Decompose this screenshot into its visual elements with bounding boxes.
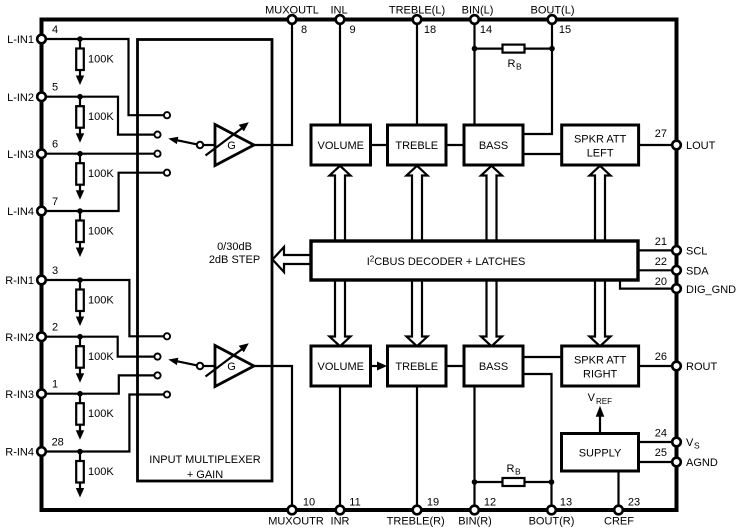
resistor 100K (L-IN2) bbox=[76, 97, 115, 143]
junction BOUT(R) bbox=[549, 479, 555, 485]
svg-text:12: 12 bbox=[484, 497, 496, 509]
svg-text:R-IN1: R-IN1 bbox=[5, 275, 34, 287]
SPKR ATT RIGHT box bbox=[562, 346, 639, 386]
control arrow to BASS L bbox=[481, 166, 502, 243]
pin 22 SDA bbox=[655, 256, 710, 278]
svg-text:B: B bbox=[516, 62, 522, 72]
pin 8 MUXOUTL bbox=[265, 5, 319, 37]
svg-text:ROUT: ROUT bbox=[686, 361, 717, 373]
pin 1 R-IN3 bbox=[5, 379, 58, 401]
svg-text:LOUT: LOUT bbox=[686, 140, 716, 152]
wire VOLUME-R to TREBLE-R bbox=[371, 362, 388, 371]
svg-text:22: 22 bbox=[655, 256, 667, 268]
svg-text:V: V bbox=[588, 392, 596, 404]
wire R-IN1 to multiplexer contact bbox=[42, 280, 168, 336]
svg-text:R: R bbox=[508, 58, 516, 70]
wire INL to VOLUME-L bbox=[339, 20, 341, 126]
svg-text:R-IN4: R-IN4 bbox=[5, 447, 34, 459]
BASS-L box bbox=[464, 125, 523, 165]
svg-text:11: 11 bbox=[349, 497, 360, 509]
resistor 100K (R-IN1) bbox=[76, 280, 115, 326]
pin 18 TREBLE(L) bbox=[389, 5, 445, 37]
pin 5 L-IN2 bbox=[7, 82, 58, 104]
wire DIG_GND bbox=[620, 280, 677, 289]
svg-text:100K: 100K bbox=[88, 168, 114, 180]
wire BASS-R to SPKR ATT RIGHT bbox=[523, 356, 562, 358]
svg-text:15: 15 bbox=[559, 24, 571, 36]
svg-text:24: 24 bbox=[655, 427, 667, 439]
svg-text:TREBLE: TREBLE bbox=[395, 140, 438, 152]
wire CREF to SUPPLY bbox=[617, 471, 619, 510]
I2CBUS DECODER + LATCHES box bbox=[311, 241, 638, 280]
svg-text:100K: 100K bbox=[88, 408, 114, 420]
svg-text:BIN(R): BIN(R) bbox=[458, 516, 492, 528]
svg-text:INR: INR bbox=[331, 516, 350, 528]
svg-text:9: 9 bbox=[349, 24, 355, 36]
svg-text:0/30dB: 0/30dB bbox=[217, 241, 252, 253]
IC outline bbox=[42, 20, 677, 511]
svg-text:BIN(L): BIN(L) bbox=[462, 5, 494, 17]
svg-text:100K: 100K bbox=[88, 294, 114, 306]
svg-text:14: 14 bbox=[480, 24, 492, 36]
pin 12 BIN(R) bbox=[458, 497, 496, 528]
junction R-IN1 bbox=[77, 277, 83, 283]
resistor RB (right) bbox=[503, 463, 525, 486]
mux contact L4 bbox=[164, 170, 170, 176]
junction BOUT(L) bbox=[549, 46, 555, 52]
pin 9 INL bbox=[330, 5, 355, 37]
wire R-IN2 to multiplexer contact bbox=[42, 337, 158, 357]
svg-text:TREBLE(R): TREBLE(R) bbox=[387, 516, 445, 528]
mux contact L3 bbox=[154, 151, 160, 157]
svg-text:SDA: SDA bbox=[686, 266, 709, 278]
svg-text:18: 18 bbox=[424, 24, 436, 36]
wiper arrow (right channel) bbox=[168, 358, 215, 370]
wire SDA bbox=[638, 269, 677, 271]
svg-text:25: 25 bbox=[655, 447, 667, 459]
svg-text:G: G bbox=[227, 361, 236, 373]
pin 13 BOUT(R) bbox=[529, 497, 575, 528]
svg-text:+ GAIN: + GAIN bbox=[187, 469, 223, 481]
pin 27 LOUT bbox=[655, 128, 716, 152]
pin 11 INR bbox=[331, 497, 361, 528]
resistor 100K (L-IN3) bbox=[76, 154, 115, 200]
svg-text:6: 6 bbox=[52, 139, 58, 151]
junction R-IN2 bbox=[77, 334, 83, 340]
wire BIN(R) to BASS-R bbox=[473, 386, 475, 510]
svg-text:100K: 100K bbox=[88, 351, 114, 363]
wire SPKR ATT LEFT to LOUT bbox=[639, 144, 677, 146]
svg-text:L-IN3: L-IN3 bbox=[7, 149, 34, 161]
svg-text:DIG_GND: DIG_GND bbox=[686, 284, 736, 296]
junction L-IN4 bbox=[77, 208, 83, 214]
svg-text:I2CBUS DECODER + LATCHES: I2CBUS DECODER + LATCHES bbox=[367, 255, 526, 269]
svg-text:BASS: BASS bbox=[479, 140, 508, 152]
control arrow to TREBLE R bbox=[407, 278, 428, 346]
svg-text:LEFT: LEFT bbox=[587, 147, 614, 159]
wire L-IN3 to multiplexer contact bbox=[42, 153, 158, 155]
svg-text:BOUT(R): BOUT(R) bbox=[529, 516, 575, 528]
SUPPLY box bbox=[562, 434, 639, 472]
svg-text:100K: 100K bbox=[88, 111, 114, 123]
svg-text:L-IN4: L-IN4 bbox=[7, 206, 34, 218]
arrow VREF from SUPPLY bbox=[588, 392, 612, 434]
mux contact R2 bbox=[154, 354, 160, 360]
label INPUT MULTIPLEXER + GAIN bbox=[149, 454, 261, 481]
pin 19 TREBLE(R) bbox=[387, 497, 445, 528]
svg-text:G: G bbox=[227, 140, 236, 152]
svg-text:BASS: BASS bbox=[479, 361, 508, 373]
wire TREBLE(R) to TREBLE-R bbox=[416, 386, 418, 510]
wire VOLUME-L to TREBLE-L bbox=[371, 144, 388, 146]
control arrow to VOLUME R bbox=[330, 278, 351, 346]
wire BIN(L) to BASS-L bbox=[473, 20, 475, 126]
wire INR to VOLUME-R bbox=[339, 386, 341, 510]
junction L-IN1 bbox=[77, 36, 83, 42]
svg-text:SPKR ATT: SPKR ATT bbox=[574, 133, 627, 145]
pin 4 L-IN1 bbox=[7, 24, 58, 46]
svg-text:5: 5 bbox=[52, 82, 58, 94]
TREBLE-R box bbox=[388, 346, 447, 386]
junction BIN(L) bbox=[472, 46, 478, 52]
label 0/30dB 2dB STEP bbox=[209, 241, 260, 266]
wire BOUT(L) to BASS-L bbox=[523, 20, 552, 135]
svg-text:100K: 100K bbox=[88, 53, 114, 65]
svg-text:19: 19 bbox=[427, 497, 439, 509]
svg-text:MUXOUTR: MUXOUTR bbox=[268, 516, 324, 528]
resistor 100K (L-IN4) bbox=[76, 211, 115, 257]
TREBLE-L box bbox=[388, 125, 447, 165]
wiper arrow (left channel) bbox=[168, 137, 215, 149]
svg-text:1: 1 bbox=[52, 379, 58, 391]
resistor 100K (R-IN2) bbox=[76, 337, 115, 383]
svg-text:BOUT(L): BOUT(L) bbox=[531, 5, 575, 17]
junction R-IN4 bbox=[77, 449, 83, 455]
svg-text:VOLUME: VOLUME bbox=[318, 361, 364, 373]
pin 20 DIG_GND bbox=[655, 276, 736, 296]
svg-text:4: 4 bbox=[52, 24, 58, 36]
pin 6 L-IN3 bbox=[7, 139, 58, 161]
wire TREBLE-L to BASS-L bbox=[446, 144, 464, 146]
mux contact R3 bbox=[154, 372, 160, 378]
resistor 100K (R-IN4) bbox=[76, 452, 115, 498]
svg-text:B: B bbox=[515, 467, 521, 477]
svg-text:26: 26 bbox=[655, 351, 667, 363]
svg-text:27: 27 bbox=[655, 128, 667, 140]
svg-text:R-IN2: R-IN2 bbox=[5, 332, 34, 344]
wire amp-right output to MUXOUTR bbox=[254, 366, 292, 510]
wire BOUT(R) to BASS-R bbox=[523, 374, 552, 510]
svg-text:2: 2 bbox=[52, 322, 58, 334]
mux contact L2 bbox=[154, 132, 160, 138]
pin 2 R-IN2 bbox=[5, 322, 58, 344]
wire amp-left output to MUXOUTL bbox=[254, 20, 292, 146]
wire SPKR ATT RIGHT to ROUT bbox=[639, 365, 677, 367]
svg-text:100K: 100K bbox=[88, 466, 114, 478]
control arrow to SPKR ATT RIGHT bbox=[590, 278, 611, 346]
svg-text:20: 20 bbox=[655, 276, 667, 288]
wire R-IN3 to multiplexer contact bbox=[42, 375, 158, 393]
VOLUME-R box bbox=[311, 346, 371, 386]
junction R-IN3 bbox=[77, 391, 83, 397]
svg-text:TREBLE: TREBLE bbox=[395, 361, 438, 373]
svg-text:SUPPLY: SUPPLY bbox=[579, 447, 622, 459]
control arrow to SPKR ATT LEFT bbox=[590, 166, 611, 243]
pin 7 L-IN4 bbox=[7, 196, 58, 218]
svg-text:7: 7 bbox=[52, 196, 58, 208]
svg-text:R-IN3: R-IN3 bbox=[5, 389, 34, 401]
pin 23 CREF bbox=[604, 497, 640, 528]
svg-text:INL: INL bbox=[330, 5, 347, 17]
svg-text:SPKR ATT: SPKR ATT bbox=[574, 354, 627, 366]
pin 3 R-IN1 bbox=[5, 265, 58, 287]
svg-text:TREBLE(L): TREBLE(L) bbox=[389, 5, 445, 17]
control arrow to input gain bbox=[273, 247, 312, 272]
wire TREBLE(L) to TREBLE-L bbox=[416, 20, 418, 126]
pin 15 BOUT(L) bbox=[531, 5, 575, 37]
svg-text:L-IN1: L-IN1 bbox=[7, 34, 34, 46]
pin 21 SCL bbox=[655, 236, 708, 258]
wire BASS-L to SPKR ATT LEFT bbox=[523, 153, 562, 155]
svg-text:8: 8 bbox=[301, 24, 307, 36]
control arrow to TREBLE L bbox=[407, 166, 428, 243]
wire R-IN4 to multiplexer contact bbox=[42, 395, 168, 452]
svg-text:2dB STEP: 2dB STEP bbox=[209, 254, 260, 266]
svg-text:SCL: SCL bbox=[686, 246, 707, 258]
resistor 100K (L-IN1) bbox=[76, 39, 115, 85]
svg-text:V: V bbox=[686, 437, 694, 449]
svg-text:INPUT MULTIPLEXER: INPUT MULTIPLEXER bbox=[149, 454, 261, 466]
svg-text:L-IN2: L-IN2 bbox=[7, 92, 34, 104]
svg-text:3: 3 bbox=[52, 265, 58, 277]
wire SUPPLY to AGND bbox=[639, 461, 677, 463]
svg-text:13: 13 bbox=[560, 497, 572, 509]
pin 26 ROUT bbox=[655, 351, 718, 373]
wire L-IN2 to multiplexer contact bbox=[42, 97, 158, 135]
wire SUPPLY to VS bbox=[639, 441, 677, 443]
mux contact R1 bbox=[164, 333, 170, 339]
svg-text:10: 10 bbox=[303, 497, 315, 509]
wire RB-left bbox=[475, 47, 553, 49]
svg-text:21: 21 bbox=[655, 236, 667, 248]
svg-text:28: 28 bbox=[52, 437, 64, 449]
junction L-IN3 bbox=[77, 151, 83, 157]
control arrow to VOLUME L bbox=[330, 166, 351, 243]
control arrow to BASS R bbox=[481, 278, 502, 346]
op-amp G (right channel) bbox=[206, 343, 255, 386]
wire SCL bbox=[638, 249, 677, 251]
svg-text:MUXOUTL: MUXOUTL bbox=[265, 5, 319, 17]
op-amp G (left channel) bbox=[206, 122, 255, 165]
svg-text:23: 23 bbox=[628, 497, 640, 509]
svg-text:CREF: CREF bbox=[604, 516, 634, 528]
VOLUME-L box bbox=[311, 125, 371, 165]
input multiplexer box bbox=[138, 40, 273, 482]
wire L-IN4 to multiplexer contact bbox=[42, 173, 168, 211]
pin 14 BIN(L) bbox=[462, 5, 494, 37]
svg-text:RIGHT: RIGHT bbox=[583, 368, 618, 380]
pin 28 R-IN4 bbox=[5, 437, 64, 459]
wire RB-right bbox=[475, 481, 552, 483]
junction L-IN2 bbox=[77, 94, 83, 100]
wire L-IN1 to multiplexer contact bbox=[42, 39, 168, 115]
pin 10 MUXOUTR bbox=[268, 497, 324, 528]
svg-text:REF: REF bbox=[596, 397, 612, 406]
SPKR ATT LEFT box bbox=[562, 125, 639, 165]
svg-text:S: S bbox=[694, 441, 700, 451]
mux contact R4 bbox=[164, 391, 170, 397]
svg-text:100K: 100K bbox=[88, 225, 114, 237]
svg-text:AGND: AGND bbox=[686, 457, 718, 469]
pin 24 VS bbox=[655, 427, 700, 450]
svg-text:R: R bbox=[507, 463, 515, 475]
pin 25 AGND bbox=[655, 447, 718, 469]
BASS-R box bbox=[464, 346, 523, 386]
wire TREBLE-R to BASS-R bbox=[446, 365, 464, 367]
resistor 100K (R-IN3) bbox=[76, 394, 115, 440]
svg-text:VOLUME: VOLUME bbox=[318, 140, 364, 152]
junction BIN(R) bbox=[472, 479, 478, 485]
mux contact L1 bbox=[164, 112, 170, 118]
resistor RB (left) bbox=[503, 45, 525, 72]
